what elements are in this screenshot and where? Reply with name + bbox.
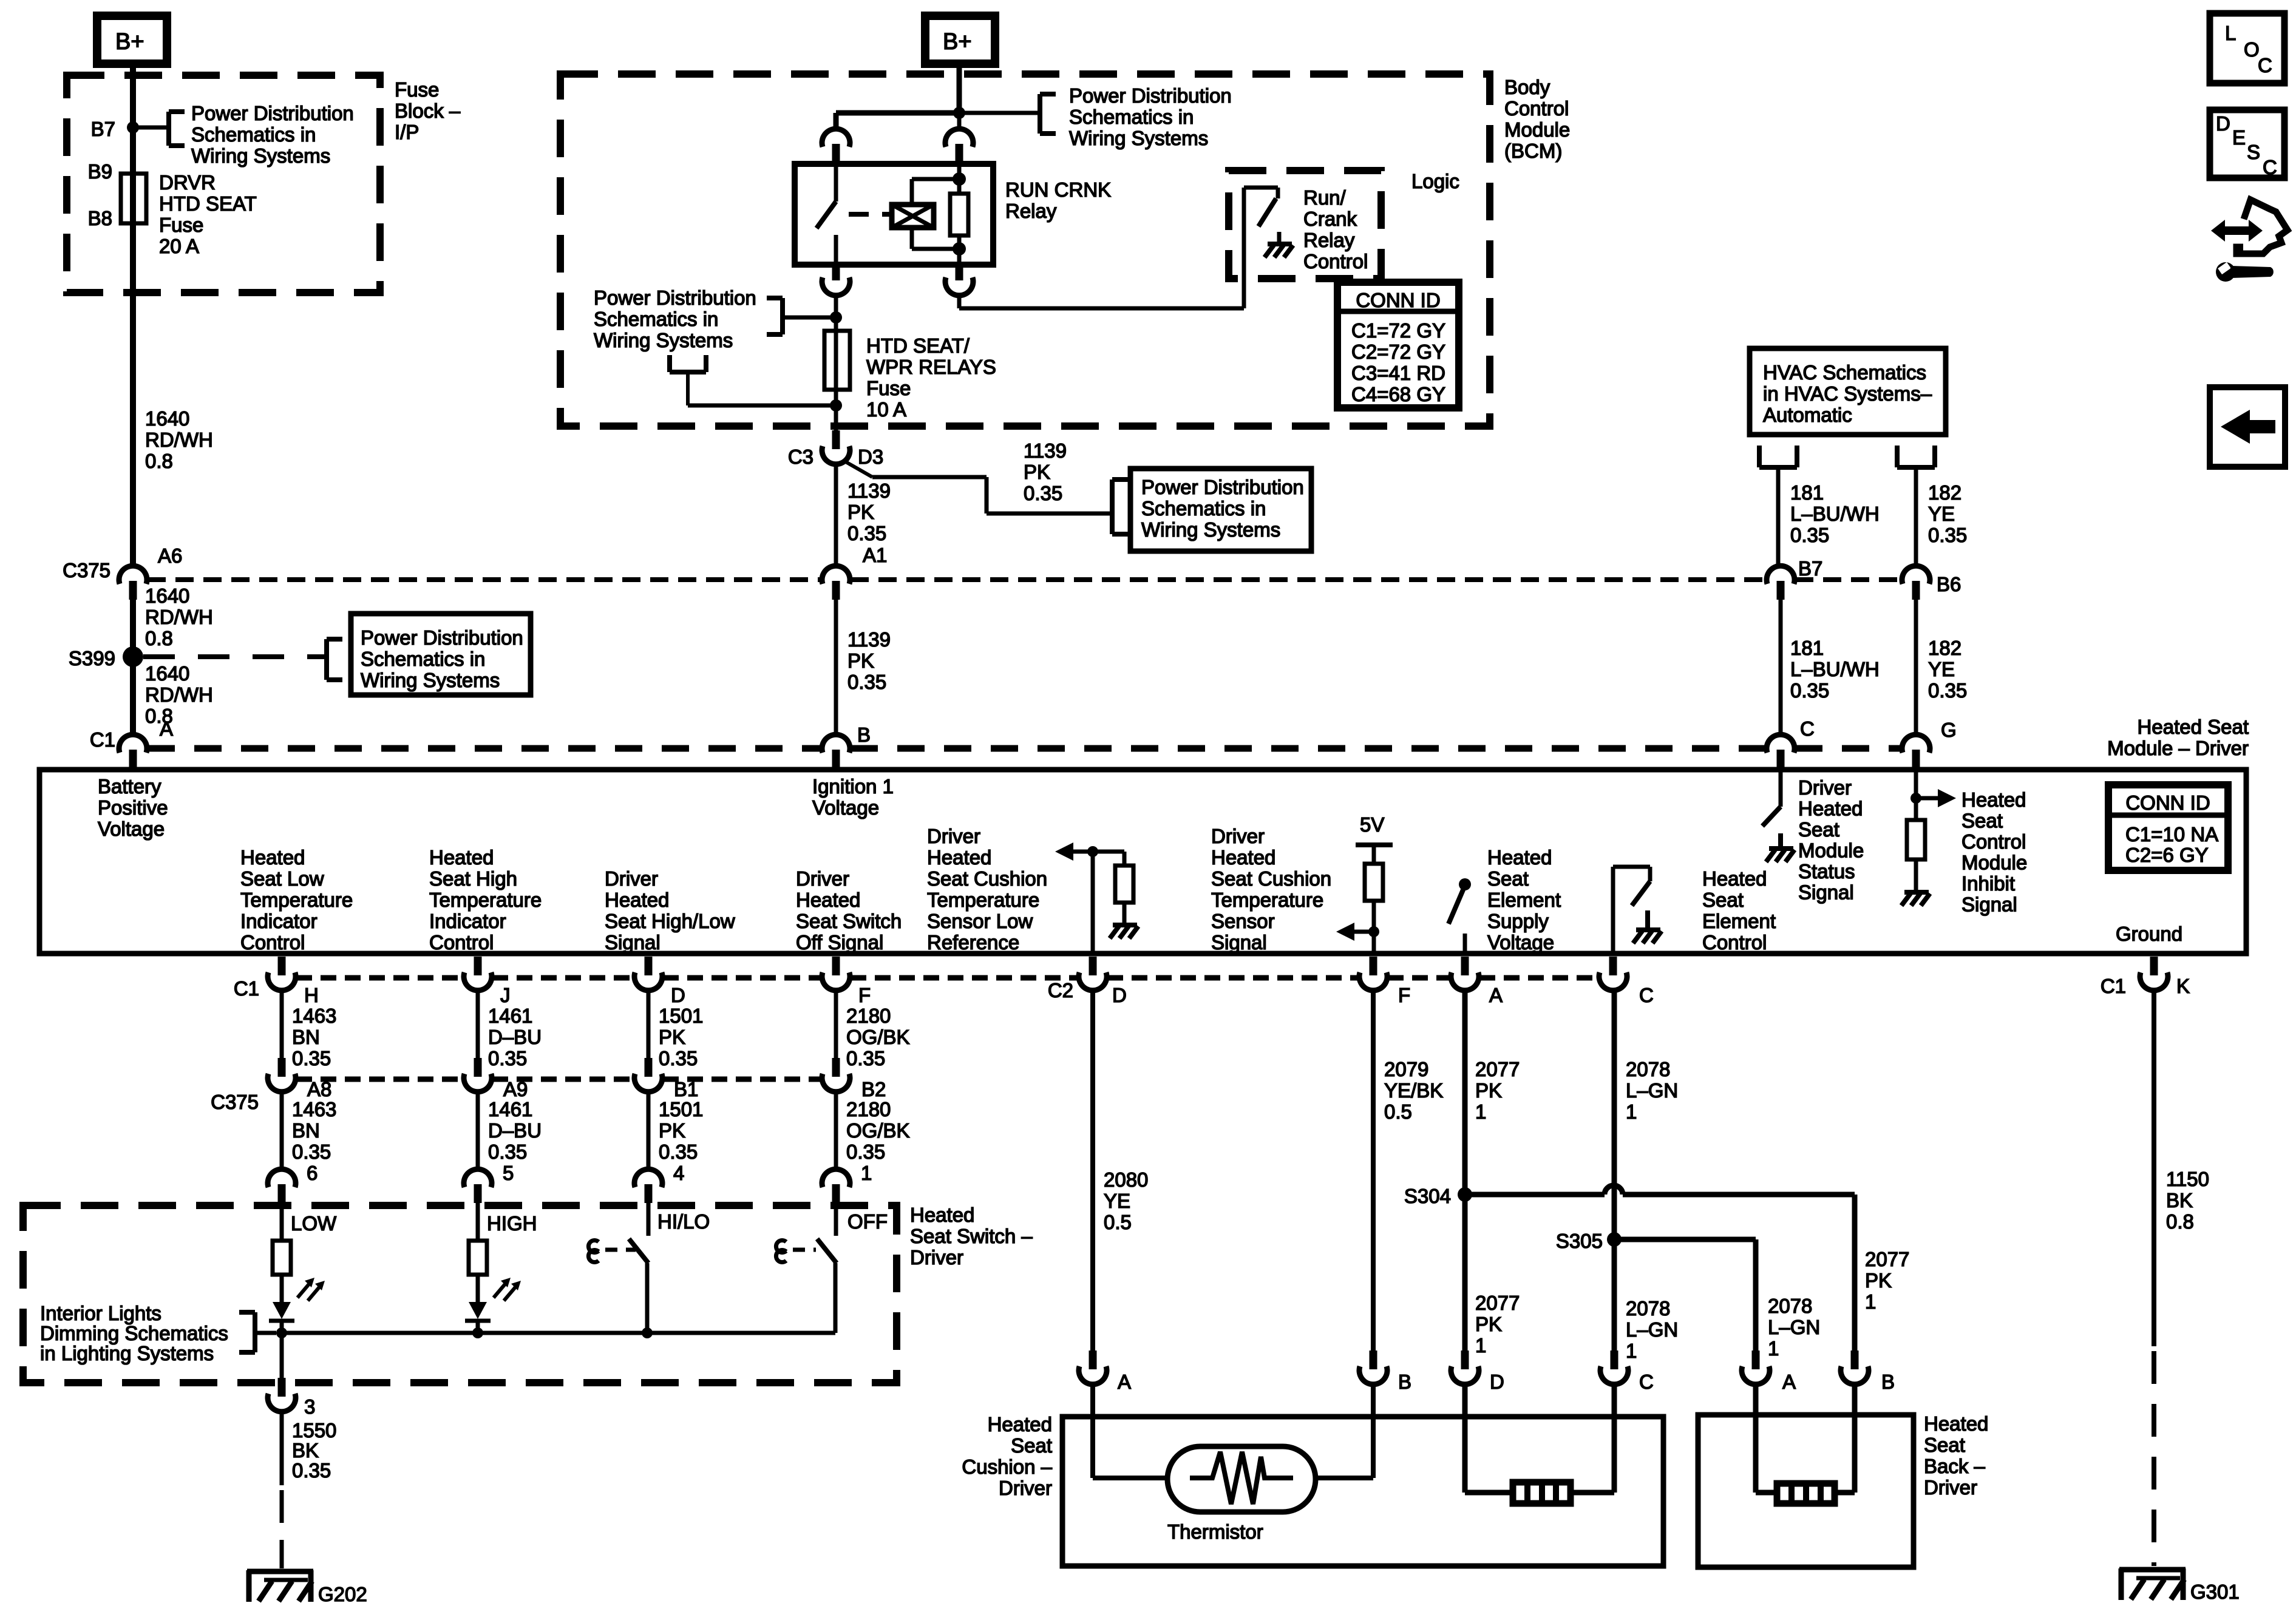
svg-text:C3=41 RD: C3=41 RD: [1351, 362, 1445, 384]
svg-text:Fuse: Fuse: [159, 214, 203, 236]
logic driver switch: [1244, 188, 1278, 226]
svg-text:D: D: [671, 984, 685, 1006]
svg-text:Crank: Crank: [1303, 208, 1357, 230]
svg-text:Power Distribution: Power Distribution: [1141, 476, 1304, 498]
svg-text:Control: Control: [1504, 97, 1569, 120]
svg-text:C1=10 NA: C1=10 NA: [2125, 823, 2218, 846]
wire label 2078 L-GN 1 (upper): [1626, 1058, 1678, 1123]
svg-text:PK: PK: [1475, 1079, 1502, 1102]
wire thermistor to cushion B: [1316, 1384, 1373, 1478]
svg-text:Power Distribution: Power Distribution: [361, 626, 523, 649]
wire HIGH indicator: [476, 1203, 480, 1241]
connector line module top (dashed row 2): [148, 745, 1901, 752]
svg-text:1: 1: [1626, 1100, 1637, 1123]
node inhibit junction (pin G): [1911, 770, 1921, 820]
connector heated seat switch pin: [634, 1169, 662, 1203]
wire cushion C to element: [1612, 1384, 1617, 1493]
svg-text:C: C: [2263, 156, 2277, 178]
wire label 2180 OG/BK 0.35 1: [846, 1098, 910, 1184]
svg-text:0.35: 0.35: [488, 1047, 527, 1069]
svg-text:G301: G301: [2190, 1581, 2240, 1603]
reference bracket to Power Distribution (fuse block): [133, 112, 185, 146]
svg-text:Heated: Heated: [927, 846, 991, 869]
svg-text:0.35: 0.35: [1790, 679, 1829, 702]
svg-text:0.35: 0.35: [847, 671, 886, 693]
svg-text:Supply: Supply: [1487, 910, 1549, 932]
svg-text:1501: 1501: [659, 1005, 703, 1027]
svg-text:Inhibit: Inhibit: [1961, 872, 2015, 895]
svg-text:H: H: [304, 984, 319, 1006]
node fuse top junction: [830, 311, 842, 324]
svg-text:PK: PK: [847, 501, 874, 523]
svg-text:Heated: Heated: [1702, 867, 1767, 890]
svg-text:D–BU: D–BU: [488, 1119, 542, 1142]
connector C375 pin A8: [268, 1058, 331, 1100]
wire B+ into BCM: [957, 64, 962, 113]
svg-text:Wiring Systems: Wiring Systems: [1069, 127, 1208, 149]
label Ignition 1 Voltage: [812, 775, 894, 819]
svg-text:1139: 1139: [847, 628, 891, 651]
wire label 1501 PK 0.35 4: [659, 1098, 703, 1184]
wire label 1463 BN 0.35 (upper): [292, 1005, 336, 1069]
heated seat cushion box: [1062, 1417, 1663, 1566]
svg-text:Driver: Driver: [605, 867, 658, 890]
svg-text:B: B: [1398, 1371, 1411, 1393]
svg-text:1640: 1640: [145, 585, 189, 607]
wire label 1139 PK 0.35 (branch): [1024, 439, 1067, 504]
svg-text:1: 1: [1475, 1334, 1486, 1357]
wire label 2079 YE/BK 0.5: [1384, 1058, 1443, 1123]
wire 2077 PK (module A to S304): [1462, 990, 1468, 1354]
svg-text:YE: YE: [1928, 658, 1955, 680]
label pin letter D: [671, 984, 685, 1006]
svg-text:2180: 2180: [846, 1098, 891, 1120]
relay pin connector (right top): [945, 113, 973, 164]
svg-text:PK: PK: [659, 1026, 685, 1048]
connector module pin B: [822, 724, 871, 768]
svg-text:1: 1: [1626, 1340, 1637, 1362]
resistor HIGH indicator: [469, 1241, 487, 1275]
svg-text:BN: BN: [292, 1119, 320, 1142]
label HIGH: [487, 1212, 537, 1235]
label Run/Crank Relay Control: [1303, 186, 1368, 273]
svg-text:1: 1: [861, 1162, 872, 1184]
svg-text:2078: 2078: [1626, 1297, 1670, 1320]
svg-text:B+: B+: [943, 29, 972, 55]
svg-text:G202: G202: [318, 1583, 367, 1605]
svg-text:Driver: Driver: [1211, 825, 1265, 847]
relay switch blade: [817, 202, 836, 228]
fuse HTD SEAT/WPR RELAYS 10A: [824, 331, 850, 409]
svg-text:Seat Low: Seat Low: [240, 867, 324, 890]
svg-text:Run/: Run/: [1303, 186, 1347, 209]
relay coil bottom wire: [912, 228, 959, 249]
connector back pin B: [1841, 1351, 1895, 1393]
svg-text:0.35: 0.35: [292, 1459, 331, 1482]
svg-text:L–BU/WH: L–BU/WH: [1790, 658, 1880, 680]
label Interior Lights Dimming Schematics in Lighting Systems: [40, 1302, 228, 1364]
svg-text:C: C: [1800, 717, 1815, 740]
svg-text:Dimming Schematics: Dimming Schematics: [40, 1322, 228, 1344]
resistor sensor signal pull-up: [1365, 864, 1383, 901]
svg-text:F: F: [1398, 984, 1410, 1006]
svg-text:Seat Switch –: Seat Switch –: [910, 1225, 1033, 1247]
svg-text:B2: B2: [861, 1078, 886, 1100]
wire 181 L-BU/WH (upper): [1776, 467, 1781, 566]
svg-text:Signal: Signal: [1961, 893, 2017, 916]
wire label 1550 BK 0.35: [292, 1419, 336, 1482]
module status switch ground: [1766, 833, 1795, 862]
ground chassis (inhibit): [1901, 892, 1930, 906]
ground G202: [247, 1570, 367, 1605]
svg-text:HTD SEAT: HTD SEAT: [159, 192, 257, 215]
svg-text:BK: BK: [292, 1439, 319, 1462]
label Logic: [1411, 170, 1459, 192]
svg-text:5V: 5V: [1360, 813, 1384, 836]
svg-text:L–GN: L–GN: [1768, 1316, 1820, 1338]
label C1 (module pin row left): [234, 977, 259, 1000]
wire label 1640 RD/WH 0.8 (upper): [145, 407, 213, 472]
BCM dashed box (Body Control Module): [560, 74, 1490, 426]
svg-text:K: K: [2176, 975, 2190, 997]
fuse block dashed box (Fuse Block - I/P): [67, 75, 380, 293]
svg-text:Control: Control: [1961, 830, 2026, 853]
svg-text:Indicator: Indicator: [429, 910, 506, 932]
svg-text:RUN CRNK: RUN CRNK: [1005, 178, 1111, 201]
svg-text:D: D: [1490, 1371, 1504, 1393]
connector cushion pin D: [1451, 1351, 1504, 1393]
svg-text:Sensor: Sensor: [1211, 910, 1275, 932]
svg-text:Relay: Relay: [1303, 229, 1355, 251]
svg-text:Element: Element: [1702, 910, 1776, 932]
label DRVR HTD SEAT Fuse 20 A: [159, 171, 257, 257]
svg-text:Seat Cushion: Seat Cushion: [927, 867, 1047, 890]
svg-text:2180: 2180: [846, 1005, 891, 1027]
wire inhibit resistor to ground: [1914, 859, 1918, 891]
wire element to back B: [1835, 1384, 1855, 1493]
svg-text:HVAC Schematics: HVAC Schematics: [1763, 361, 1926, 384]
svg-text:1550: 1550: [292, 1419, 336, 1442]
svg-text:0.35: 0.35: [1928, 679, 1967, 702]
svg-text:2077: 2077: [1475, 1292, 1520, 1314]
wire label 181 L-BU/WH 0.35 (upper): [1790, 481, 1880, 546]
svg-text:1463: 1463: [292, 1098, 336, 1120]
connector heated seat switch pin: [822, 1169, 850, 1203]
svg-text:B1: B1: [674, 1078, 698, 1100]
label Ground (module): [2116, 923, 2182, 945]
label pin letter K: [2176, 975, 2190, 997]
svg-text:CONN ID: CONN ID: [2125, 791, 2210, 814]
wire into module battery pin: [130, 768, 136, 772]
relay internal resistor: [950, 164, 968, 265]
splice S399: [69, 646, 143, 669]
svg-text:10 A: 10 A: [866, 398, 906, 421]
svg-text:Fuse: Fuse: [866, 377, 911, 399]
svg-text:0.35: 0.35: [659, 1140, 698, 1163]
label pin letter F: [858, 984, 871, 1006]
wire 2078 L-GN (module C to S305): [1612, 990, 1617, 1354]
svg-text:A9: A9: [503, 1078, 528, 1100]
svg-text:Power Distribution: Power Distribution: [594, 286, 756, 309]
svg-text:Wiring Systems: Wiring Systems: [1141, 518, 1280, 541]
wire module pin to C375: [834, 990, 838, 1059]
label pin letter A: [1489, 984, 1503, 1006]
label Driver Heated Seat High/Low Signal: [605, 867, 735, 954]
wire label 1461 D-BU 0.35 (upper): [488, 1005, 542, 1069]
label Power Distribution Schematics in Wiring Systems (BCM top): [1069, 84, 1232, 149]
reference bracket interior lights: [239, 1312, 276, 1352]
svg-text:182: 182: [1928, 481, 1961, 504]
svg-text:5: 5: [503, 1162, 514, 1184]
svg-text:Seat Cushion: Seat Cushion: [1211, 867, 1331, 890]
connector back pin A: [1742, 1351, 1796, 1393]
connector cushion pin A: [1079, 1351, 1131, 1393]
wire low-ref resistor to ground: [1123, 903, 1127, 924]
connector C3/D3: [788, 430, 883, 468]
svg-text:Voltage: Voltage: [98, 818, 165, 840]
wire label 1461 D-BU 0.35 5: [488, 1098, 542, 1184]
svg-text:Power Distribution: Power Distribution: [191, 102, 354, 124]
svg-text:Schematics in: Schematics in: [1141, 497, 1266, 520]
svg-text:Heated: Heated: [910, 1204, 974, 1226]
svg-text:Heated: Heated: [1924, 1412, 1988, 1435]
Heated Seat Module - Driver box: [39, 770, 2246, 954]
reference box Power Distribution Schematics in Wiring Systems (S399): [351, 614, 531, 695]
svg-text:G: G: [1941, 719, 1957, 741]
wire label 2077 PK 1 (lower): [1475, 1292, 1520, 1357]
svg-text:C1: C1: [2101, 975, 2126, 997]
svg-text:A: A: [160, 717, 173, 740]
connector module pin H (C1): [268, 957, 296, 991]
wire 1139 branch to reference box: [843, 460, 1112, 513]
svg-text:0.35: 0.35: [846, 1140, 885, 1163]
LED LOW emission arrows: [297, 1278, 325, 1301]
label Heated Seat High Temperature Indicator Control: [429, 846, 542, 954]
node HI/LO junction: [642, 1327, 653, 1338]
label Heated Seat Low Temperature Indicator Control: [240, 846, 353, 954]
svg-text:Driver: Driver: [999, 1477, 1052, 1499]
wire 1150 BK (K to G301): [2152, 990, 2156, 1566]
relay pin connector (left top): [822, 129, 850, 164]
svg-text:Power Distribution: Power Distribution: [1069, 84, 1232, 107]
wire module pin to C375: [647, 990, 651, 1059]
icon LOC box: [2210, 13, 2284, 83]
svg-text:Module: Module: [1798, 839, 1864, 862]
svg-text:0.35: 0.35: [1928, 524, 1967, 546]
svg-text:RD/WH: RD/WH: [145, 429, 213, 451]
svg-text:Module: Module: [1961, 852, 2027, 874]
svg-text:L–GN: L–GN: [1626, 1079, 1678, 1102]
svg-text:DRVR: DRVR: [159, 171, 216, 194]
CONN ID table (module): [2108, 785, 2228, 870]
module pin connector line (dashed): [296, 975, 1598, 981]
svg-text:HIGH: HIGH: [487, 1212, 537, 1235]
label Driver Heated Seat Cushion Temperature Sensor Signal: [1211, 825, 1331, 954]
svg-text:YE: YE: [1928, 503, 1955, 525]
svg-text:C4=68 GY: C4=68 GY: [1351, 383, 1445, 405]
wire S304 branch to back pin B: [1472, 1185, 1855, 1354]
resistor sensor low reference: [1115, 866, 1133, 903]
heated seat back box: [1698, 1415, 1914, 1567]
relay RUN CRNK box: [795, 164, 993, 265]
svg-text:C: C: [1639, 984, 1654, 1006]
power symbol B+ (battery positive, right): [925, 16, 995, 64]
svg-text:C: C: [1639, 1371, 1654, 1393]
svg-text:WPR RELAYS: WPR RELAYS: [866, 356, 996, 378]
arrow sensor low reference: [1055, 842, 1093, 861]
wire 1139 PK A1 to B: [834, 600, 838, 735]
arrow sensor signal: [1336, 923, 1374, 941]
svg-text:in Lighting Systems: in Lighting Systems: [40, 1342, 214, 1364]
switch heated seat element control: [1613, 867, 1650, 954]
reference bracket (1139 branch): [1112, 480, 1128, 534]
svg-text:0.35: 0.35: [488, 1140, 527, 1163]
svg-text:B7: B7: [91, 118, 115, 140]
thermistor body: [1167, 1446, 1316, 1512]
svg-text:0.8: 0.8: [2166, 1210, 2194, 1233]
svg-text:181: 181: [1790, 637, 1824, 659]
svg-text:LOW: LOW: [291, 1212, 337, 1235]
wire label 182 YE 0.35 (lower): [1928, 637, 1967, 702]
svg-text:YE: YE: [1104, 1190, 1130, 1212]
wire 2080 YE (module D to cushion A): [1090, 990, 1095, 1354]
svg-text:Body: Body: [1504, 76, 1550, 98]
svg-text:L–BU/WH: L–BU/WH: [1790, 503, 1880, 525]
connector C1 pin A (module battery feed): [90, 717, 173, 768]
splice S305: [1556, 1230, 1622, 1252]
svg-text:Module – Driver: Module – Driver: [2107, 737, 2249, 759]
svg-text:Status: Status: [1798, 860, 1855, 883]
fuse DRVR HTD SEAT 20A: [121, 174, 146, 223]
svg-text:Seat: Seat: [1487, 867, 1529, 890]
svg-text:B7: B7: [1798, 557, 1822, 580]
svg-text:Battery: Battery: [98, 775, 161, 798]
node sensor signal junction: [1368, 926, 1379, 937]
svg-text:2079: 2079: [1384, 1058, 1428, 1080]
label pin letter H: [304, 984, 319, 1006]
wire label 1463 BN 0.35 6: [292, 1098, 336, 1184]
svg-text:Temperature: Temperature: [429, 889, 542, 911]
svg-text:2077: 2077: [1865, 1248, 1909, 1270]
svg-text:2077: 2077: [1475, 1058, 1520, 1080]
svg-text:C1: C1: [234, 977, 259, 1000]
wire LOW indicator: [280, 1203, 284, 1241]
svg-text:in HVAC Systems–: in HVAC Systems–: [1763, 382, 1932, 405]
svg-text:0.8: 0.8: [145, 627, 173, 649]
svg-text:C2=72 GY: C2=72 GY: [1351, 341, 1445, 363]
connector heated seat switch pin: [268, 1169, 296, 1203]
wire C375 to heated seat switch: [476, 1091, 480, 1170]
dashed reference branch from S399: [143, 639, 342, 680]
svg-text:Voltage: Voltage: [812, 796, 879, 819]
logic driver ground: [1265, 232, 1293, 257]
wire label 2077 PK 1 (upper): [1475, 1058, 1520, 1123]
heated seat switch dashed box: [23, 1205, 897, 1383]
svg-text:2080: 2080: [1104, 1168, 1148, 1191]
relay coil: [892, 205, 934, 228]
label HI/LO: [657, 1210, 710, 1233]
wire pull-up to pin F: [1372, 901, 1376, 954]
svg-text:Control: Control: [1303, 250, 1368, 273]
svg-text:OG/BK: OG/BK: [846, 1026, 910, 1048]
wire 1640 RD/WH C375 to S399: [130, 600, 136, 735]
node BCM battery junction: [953, 107, 965, 119]
svg-text:Heated: Heated: [429, 846, 494, 869]
wire S305 branch to back pin A: [1621, 1239, 1756, 1354]
svg-text:1640: 1640: [145, 662, 189, 685]
wire back A to element: [1756, 1384, 1777, 1493]
wire label 1640 RD/WH 0.8 (lower): [145, 662, 213, 727]
splice S304: [1404, 1185, 1472, 1207]
svg-text:Control: Control: [1702, 931, 1767, 954]
svg-text:Schematics in: Schematics in: [361, 648, 485, 670]
svg-text:CONN ID: CONN ID: [1356, 289, 1440, 311]
connector C375 pin B2: [822, 1058, 886, 1100]
svg-text:HI/LO: HI/LO: [657, 1210, 710, 1233]
wire LOW junction to pin 3: [280, 1333, 284, 1383]
svg-text:182: 182: [1928, 637, 1961, 659]
svg-text:A: A: [1118, 1371, 1131, 1393]
connector module pin K (C1): [2140, 957, 2168, 991]
label pin letter F: [1398, 984, 1410, 1006]
svg-text:Driver: Driver: [910, 1246, 963, 1269]
svg-text:0.8: 0.8: [145, 450, 173, 472]
svg-text:1461: 1461: [488, 1098, 532, 1120]
svg-text:Schematics in: Schematics in: [1069, 106, 1194, 128]
svg-text:1640: 1640: [145, 407, 189, 430]
svg-text:S: S: [2247, 141, 2260, 163]
svg-text:1150: 1150: [2166, 1168, 2209, 1190]
svg-text:Heated Seat: Heated Seat: [2138, 716, 2249, 738]
label Body Control Module (BCM): [1504, 76, 1570, 162]
label RUN CRNK Relay: [1005, 178, 1111, 222]
wire label 1139 PK 0.35 (above A1): [847, 480, 891, 544]
svg-text:Control: Control: [240, 931, 305, 954]
module status switch (pin C): [1762, 770, 1781, 826]
svg-text:O: O: [2244, 38, 2260, 61]
svg-text:181: 181: [1790, 481, 1824, 504]
svg-text:Thermistor: Thermistor: [1167, 1520, 1263, 1543]
connector line C375 (dashed row 1): [148, 577, 1901, 582]
svg-text:BN: BN: [292, 1026, 320, 1048]
wire label 181 L-BU/WH 0.35 (lower): [1790, 637, 1880, 702]
svg-text:Voltage: Voltage: [1487, 931, 1554, 954]
svg-text:Wiring Systems: Wiring Systems: [594, 329, 733, 351]
svg-text:B: B: [1881, 1371, 1895, 1393]
svg-text:Schematics in: Schematics in: [594, 308, 718, 330]
wire label 2080 YE 0.5: [1104, 1168, 1148, 1233]
svg-text:2078: 2078: [1626, 1058, 1670, 1080]
wire label 2078 L-GN 1 (lower): [1626, 1297, 1678, 1362]
wire label 2077 PK 1 (back B): [1865, 1248, 1909, 1313]
wire relay to fuse junction: [834, 295, 838, 331]
label C375 (row 2): [211, 1091, 259, 1113]
wire label 1150 BK 0.8: [2166, 1168, 2209, 1233]
svg-text:C375: C375: [211, 1091, 259, 1113]
svg-text:B8: B8: [88, 207, 112, 229]
svg-text:Ground: Ground: [2116, 923, 2182, 945]
svg-text:C2: C2: [1048, 979, 1073, 1001]
wire BCM battery bus: [836, 113, 1040, 129]
label Heated Seat Control Module Inhibit Signal: [1961, 788, 2027, 916]
wire 1139 PK to A1: [834, 464, 838, 566]
thermistor element zigzag: [1190, 1452, 1293, 1504]
wire BCM fuse output to C3: [834, 405, 838, 435]
LED HIGH emission arrows: [494, 1278, 521, 1301]
svg-text:20 A: 20 A: [159, 235, 199, 257]
connector C375 pin A6: [63, 544, 182, 600]
svg-text:0.35: 0.35: [292, 1140, 331, 1163]
